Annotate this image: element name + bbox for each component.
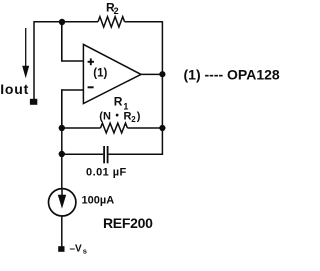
Iout current direction arrow: [22, 28, 29, 78]
wire: op-amp output: [140, 73, 162, 75]
wire: capacitor row left segment: [62, 153, 103, 155]
label R1: [114, 95, 129, 112]
svg-text:–V: –V: [70, 244, 83, 255]
wire: right vertical rail (output net): [161, 21, 163, 155]
wire: +input branch: [61, 22, 83, 61]
svg-text:R: R: [114, 95, 123, 109]
wire: capacitor row right segment: [109, 153, 164, 155]
op-amp U1 triangle: [83, 44, 141, 103]
svg-text:(1): (1): [93, 67, 107, 79]
label -Vs: [70, 244, 87, 256]
Iout terminal square: [30, 99, 37, 105]
svg-text:REF200: REF200: [103, 215, 153, 231]
label R2: [106, 0, 119, 16]
current source CS1 circle: [49, 189, 76, 216]
node junction dot: top rail / +input: [59, 19, 65, 25]
op-amp - input mark: [88, 86, 94, 88]
capacitor C1 plates: [104, 146, 108, 163]
svg-text:0.01 µF: 0.01 µF: [86, 166, 127, 178]
svg-text:Iout: Iout: [0, 81, 29, 97]
svg-text:(N: (N: [99, 111, 111, 123]
wire: top feedback rail left segment: [34, 21, 98, 23]
svg-text:R: R: [124, 111, 132, 123]
svg-text:100µA: 100µA: [82, 195, 115, 207]
op-amp + input mark: [88, 58, 94, 65]
node junction dot: R1 right / output rail: [159, 125, 165, 131]
resistor R2: [98, 17, 125, 27]
-Vs terminal square: [58, 246, 64, 252]
wire: -input branch: [62, 89, 83, 128]
current source arrow: [58, 189, 66, 209]
svg-text:•: •: [115, 110, 119, 121]
node junction dot: capacitor left: [59, 151, 65, 157]
resistor R1: [101, 123, 128, 133]
svg-text:2: 2: [114, 6, 119, 16]
wire: R1 row right segment: [127, 127, 162, 129]
svg-text:s: s: [83, 247, 87, 256]
wire: left vertical to Iout terminal: [33, 21, 35, 99]
label (N . R2): [99, 110, 140, 124]
wire: R1 row left segment: [62, 127, 101, 129]
svg-text:(1) ---- OPA128: (1) ---- OPA128: [184, 67, 280, 83]
wire: left rail -input net vertical (dots to current source): [61, 128, 63, 188]
svg-text:): ): [137, 111, 141, 123]
wire: top feedback rail right segment: [125, 21, 163, 23]
node junction dot: output node: [159, 71, 165, 77]
svg-text:2: 2: [131, 115, 136, 124]
wire: current source to -Vs terminal: [61, 216, 63, 247]
node junction dot: -input / R1 left: [59, 125, 65, 131]
